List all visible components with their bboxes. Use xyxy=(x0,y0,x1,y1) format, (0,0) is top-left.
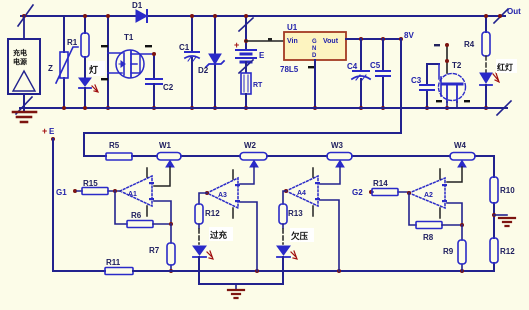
fuse slash left xyxy=(18,5,33,26)
svg-text:R12: R12 xyxy=(205,209,220,218)
svg-text:R10: R10 xyxy=(500,186,515,195)
svg-text:红灯: 红灯 xyxy=(497,62,513,72)
svg-text:C5: C5 xyxy=(370,61,381,70)
svg-text:R11: R11 xyxy=(106,258,121,267)
svg-text:R5: R5 xyxy=(109,141,120,150)
svg-text:充电: 充电 xyxy=(13,48,27,57)
wire W1 wiper to A1 xyxy=(154,167,170,186)
wire bottom rail xyxy=(20,107,507,109)
diode D1 xyxy=(136,10,147,22)
ground right xyxy=(494,215,515,226)
LED overcharge xyxy=(193,246,213,284)
label box overcharge xyxy=(209,227,233,241)
wire divider row xyxy=(84,155,494,157)
svg-text:RT: RT xyxy=(253,82,263,89)
resistor R7 xyxy=(167,224,175,271)
svg-text:Out: Out xyxy=(507,7,521,16)
svg-text:灯: 灯 xyxy=(89,64,98,75)
svg-text:+: + xyxy=(42,126,47,136)
node Out xyxy=(494,9,508,23)
resistor R14 xyxy=(372,189,409,196)
ground bottom-left xyxy=(13,94,36,122)
ground center xyxy=(228,284,244,298)
resistor R12 lower xyxy=(490,238,498,263)
svg-text:A2: A2 xyxy=(424,192,433,199)
resistor R1 xyxy=(81,16,89,77)
svg-text:D1: D1 xyxy=(132,1,143,10)
resistor R10 xyxy=(490,177,498,203)
resistor R12 xyxy=(195,193,207,244)
op-amp A3 xyxy=(207,170,240,218)
svg-text:A3: A3 xyxy=(218,192,227,199)
svg-text:R14: R14 xyxy=(373,179,388,188)
capacitor C4 xyxy=(352,39,370,108)
svg-text:G1: G1 xyxy=(56,188,67,197)
capacitor C3 xyxy=(420,64,434,108)
svg-text:R12: R12 xyxy=(500,247,515,256)
wire A2 feedback xyxy=(409,193,416,225)
svg-text:电源: 电源 xyxy=(13,57,27,66)
svg-text:W3: W3 xyxy=(331,141,344,150)
resistor R9 xyxy=(458,225,466,271)
svg-text:8V: 8V xyxy=(404,31,414,40)
wire A4 inverting input xyxy=(320,200,339,271)
wire Vin xyxy=(246,38,284,41)
LED undervoltage xyxy=(277,246,297,284)
op-amp A1 xyxy=(120,168,154,216)
svg-text:欠压: 欠压 xyxy=(291,231,309,241)
resistor R5 xyxy=(106,153,132,160)
wire A1 inverting input xyxy=(153,201,171,224)
svg-text:E: E xyxy=(259,51,265,60)
svg-text:过充: 过充 xyxy=(210,230,228,240)
wire supply top of lower section xyxy=(84,133,401,156)
svg-text:D: D xyxy=(312,53,317,59)
resistor R4 xyxy=(482,16,490,72)
svg-text:U1: U1 xyxy=(287,23,298,32)
svg-text:T1: T1 xyxy=(124,33,134,42)
label box red lamp xyxy=(496,59,517,73)
svg-text:C3: C3 xyxy=(411,76,422,85)
svg-text:+: + xyxy=(234,40,239,50)
svg-text:C4: C4 xyxy=(347,62,358,71)
zener D2 xyxy=(206,16,224,108)
node top-left xyxy=(22,14,26,18)
thermistor RT xyxy=(241,73,251,108)
svg-text:W1: W1 xyxy=(159,141,172,150)
svg-text:C1: C1 xyxy=(179,43,190,52)
LED power indicator xyxy=(79,78,98,108)
potentiometer W1 xyxy=(157,153,181,168)
resistor R8 xyxy=(416,222,442,229)
wire U1 ground pin xyxy=(308,60,315,108)
potentiometer W3 xyxy=(327,153,352,168)
wire Vout 8V xyxy=(346,38,401,40)
wire A2 inverting input xyxy=(442,203,462,225)
transistor T2 xyxy=(427,44,470,108)
resistor R15 xyxy=(77,188,120,195)
AC adapter box xyxy=(8,16,40,94)
wire A3 inverting input xyxy=(240,202,257,271)
transistor T1 xyxy=(101,16,154,108)
op-amp A4 xyxy=(286,168,320,216)
regulator U1 xyxy=(284,32,346,60)
svg-text:R1: R1 xyxy=(67,38,78,47)
svg-text:R6: R6 xyxy=(131,211,142,220)
LED red indicator xyxy=(480,73,499,108)
svg-text:R15: R15 xyxy=(83,179,98,188)
svg-text:D2: D2 xyxy=(198,66,209,75)
capacitor C2 xyxy=(146,54,162,108)
svg-text:Vout: Vout xyxy=(323,38,339,45)
svg-text:R8: R8 xyxy=(423,233,434,242)
svg-text:G2: G2 xyxy=(352,188,363,197)
svg-text:W2: W2 xyxy=(244,141,257,150)
svg-text:R13: R13 xyxy=(288,209,303,218)
wire W3 wiper to A4 xyxy=(320,167,340,184)
label box green lamp xyxy=(88,61,105,76)
svg-text:Z: Z xyxy=(48,64,53,73)
potentiometer W4 xyxy=(450,153,475,168)
battery E branch xyxy=(236,16,256,73)
slash bottom-right xyxy=(497,101,511,115)
wire +E sense left vertical xyxy=(53,139,105,271)
wire right column xyxy=(493,156,495,271)
svg-text:Vin: Vin xyxy=(287,38,298,45)
svg-text:C2: C2 xyxy=(163,83,174,92)
svg-text:W4: W4 xyxy=(454,141,467,150)
svg-text:G: G xyxy=(312,39,317,45)
resistor R13 xyxy=(279,191,287,244)
wire LED common xyxy=(199,283,283,285)
capacitor C5 xyxy=(376,39,390,108)
varistor Z xyxy=(56,16,78,108)
svg-text:R7: R7 xyxy=(149,246,160,255)
resistor R6 xyxy=(127,221,153,228)
svg-text:A4: A4 xyxy=(297,190,306,197)
op-amp A2 xyxy=(409,169,447,218)
svg-text:78L5: 78L5 xyxy=(280,65,299,74)
svg-text:N: N xyxy=(312,46,316,52)
svg-text:T2: T2 xyxy=(452,61,462,70)
capacitor C1 xyxy=(185,16,199,108)
wire W4 wiper to A2 xyxy=(447,167,462,182)
svg-text:A1: A1 xyxy=(128,191,137,198)
wire reference rail xyxy=(133,270,494,272)
wire W2 wiper to A3 xyxy=(240,167,254,184)
potentiometer W2 xyxy=(240,153,267,168)
wire 8V down to lower section xyxy=(400,39,402,133)
wire top rail xyxy=(21,15,505,17)
wire A1 feedback xyxy=(115,191,127,224)
svg-text:R4: R4 xyxy=(464,40,475,49)
svg-text:R9: R9 xyxy=(443,247,454,256)
resistor R11 xyxy=(105,268,133,275)
label box undervoltage xyxy=(290,228,314,242)
svg-text:E: E xyxy=(49,127,55,136)
